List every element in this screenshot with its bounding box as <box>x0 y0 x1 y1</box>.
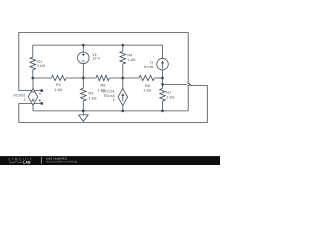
svg-text:2: 2 <box>24 98 26 102</box>
svg-text:12 V: 12 V <box>92 57 100 61</box>
svg-text:VCVS1: VCVS1 <box>13 93 26 97</box>
svg-text:1 kΩ: 1 kΩ <box>127 58 135 62</box>
svg-text:1 kΩ: 1 kΩ <box>166 95 174 99</box>
svg-text:LAB: LAB <box>23 161 31 165</box>
svg-text:R7: R7 <box>166 91 171 95</box>
svg-text:http://circuitlab.com/c6brfgk: http://circuitlab.com/c6brfgk <box>46 159 78 163</box>
svg-text:R5: R5 <box>101 83 106 87</box>
svg-text:1 kΩ: 1 kΩ <box>54 88 62 92</box>
svg-text:R2: R2 <box>56 83 61 87</box>
svg-text:1 kΩ: 1 kΩ <box>37 64 45 68</box>
svg-text:1 kΩ: 1 kΩ <box>89 97 97 101</box>
svg-text:1 kΩ: 1 kΩ <box>143 89 151 93</box>
svg-text:I1: I1 <box>150 60 153 64</box>
svg-text:R4: R4 <box>127 53 133 57</box>
svg-text:6 mA: 6 mA <box>144 65 153 69</box>
svg-text:2: 2 <box>113 98 115 102</box>
svg-text:R3: R3 <box>89 92 94 96</box>
svg-text:R6: R6 <box>145 84 150 88</box>
